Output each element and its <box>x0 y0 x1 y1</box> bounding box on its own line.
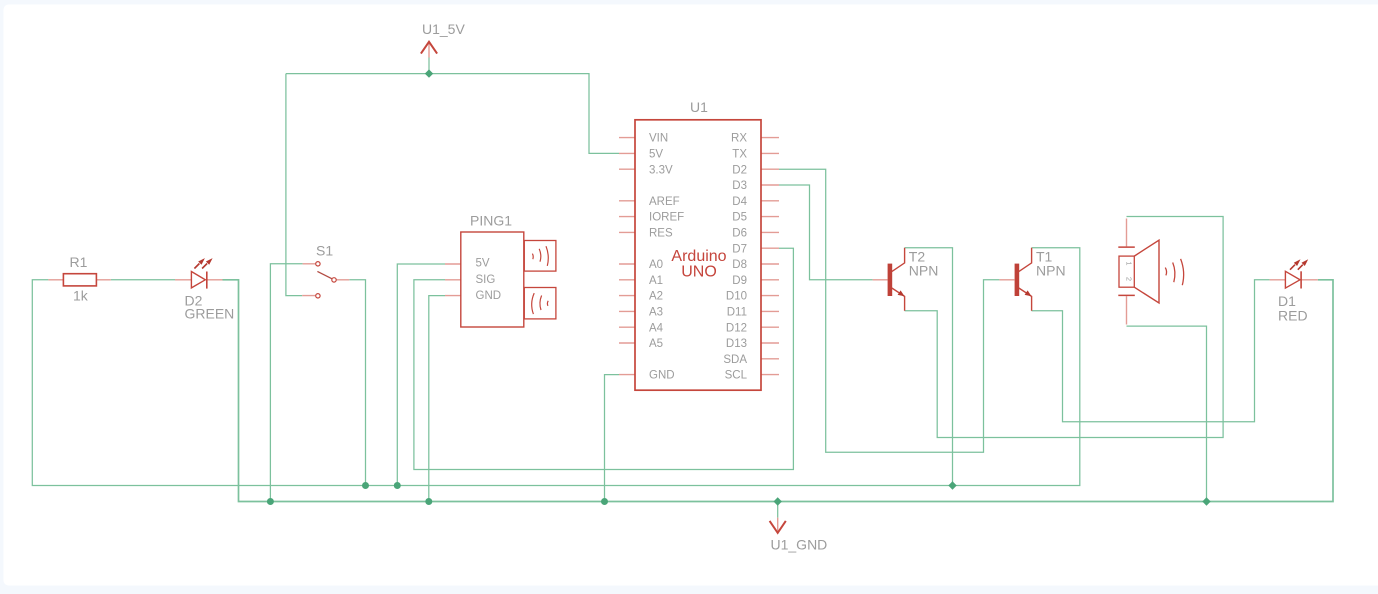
svg-text:5V: 5V <box>649 149 663 161</box>
svg-text:RED: RED <box>1278 308 1308 324</box>
svg-text:PING1: PING1 <box>470 212 512 228</box>
svg-text:A1: A1 <box>649 275 663 287</box>
svg-text:D9: D9 <box>732 275 747 287</box>
svg-text:IOREF: IOREF <box>649 212 684 224</box>
svg-text:2: 2 <box>1125 277 1134 281</box>
svg-text:RES: RES <box>649 228 673 240</box>
svg-text:SDA: SDA <box>723 354 747 366</box>
svg-text:AREF: AREF <box>649 196 680 208</box>
svg-text:NPN: NPN <box>909 263 939 279</box>
svg-text:A5: A5 <box>649 338 663 350</box>
svg-text:SIG: SIG <box>476 274 496 286</box>
svg-text:D13: D13 <box>726 338 747 350</box>
svg-text:NPN: NPN <box>1036 263 1066 279</box>
svg-text:1: 1 <box>1125 261 1134 265</box>
svg-text:1k: 1k <box>73 287 89 303</box>
svg-text:U1: U1 <box>690 99 708 115</box>
svg-text:D7: D7 <box>732 243 747 255</box>
svg-text:U1_GND: U1_GND <box>771 537 828 553</box>
svg-text:A4: A4 <box>649 322 664 334</box>
svg-text:A3: A3 <box>649 307 663 319</box>
svg-text:D6: D6 <box>732 228 747 240</box>
svg-text:GND: GND <box>649 370 675 382</box>
svg-text:3.3V: 3.3V <box>649 164 673 176</box>
svg-text:D8: D8 <box>732 259 747 271</box>
svg-text:UNO: UNO <box>681 264 717 281</box>
svg-text:TX: TX <box>732 149 747 161</box>
svg-text:GND: GND <box>476 290 502 302</box>
svg-text:A2: A2 <box>649 291 663 303</box>
svg-text:D5: D5 <box>732 212 747 224</box>
svg-text:Arduino: Arduino <box>671 248 726 265</box>
svg-text:D12: D12 <box>726 322 747 334</box>
svg-text:D2: D2 <box>732 164 747 176</box>
svg-text:D10: D10 <box>726 291 747 303</box>
svg-text:D11: D11 <box>727 307 747 319</box>
svg-text:U1_5V: U1_5V <box>422 21 465 37</box>
svg-text:GREEN: GREEN <box>185 306 235 322</box>
svg-text:D4: D4 <box>732 196 747 208</box>
svg-text:D3: D3 <box>732 180 747 192</box>
svg-text:SCL: SCL <box>725 370 748 382</box>
svg-text:5V: 5V <box>476 258 490 270</box>
svg-text:S1: S1 <box>316 242 333 258</box>
svg-text:RX: RX <box>731 133 747 145</box>
svg-text:R1: R1 <box>70 254 88 270</box>
svg-text:VIN: VIN <box>649 133 668 145</box>
svg-text:A0: A0 <box>649 259 663 271</box>
